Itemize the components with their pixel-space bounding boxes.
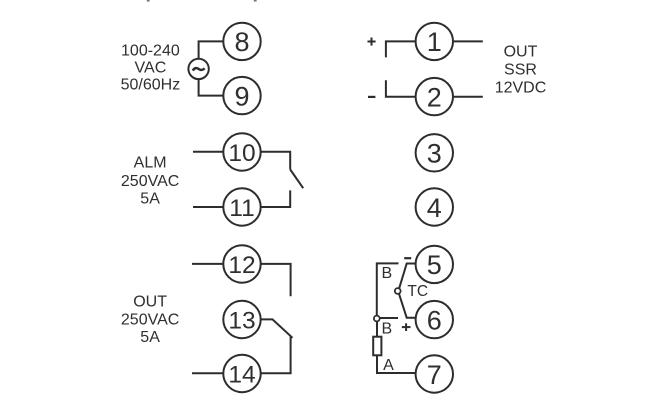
- wire AC source to terminal 8: [199, 41, 224, 58]
- terminal 12: [223, 245, 260, 282]
- svg-text:A: A: [383, 357, 394, 374]
- wire terminal 12 to changeover contact (open side): [261, 264, 291, 296]
- label: supply rating 100-240 VAC 50/60Hz: [121, 43, 181, 94]
- svg-text:VAC: VAC: [135, 60, 167, 77]
- svg-text:250VAC: 250VAC: [121, 312, 179, 329]
- svg-text:12: 12: [228, 252, 255, 279]
- switch blade changeover contact from terminal 13: [261, 319, 293, 337]
- stray mark (cropped text) top left: [147, 0, 150, 2]
- svg-text:8: 8: [234, 27, 249, 57]
- svg-text:9: 9: [234, 81, 249, 111]
- polarity plus terminal 6: [402, 323, 411, 331]
- terminal 10: [223, 133, 260, 170]
- node B junction: [374, 316, 380, 322]
- terminal 8: [223, 23, 260, 60]
- AC source G1: [188, 59, 208, 79]
- label: ALM 250VAC 5A: [121, 155, 179, 208]
- svg-text:10: 10: [228, 140, 255, 167]
- wire terminal 10 to ALM contact: [261, 152, 291, 170]
- resistor RTD sensor: [373, 337, 381, 356]
- terminal 11: [223, 188, 260, 225]
- wire right stub terminal 2: [453, 96, 483, 98]
- svg-text:3: 3: [427, 139, 442, 169]
- wire TC junction to terminal 6: [399, 293, 416, 317]
- wire minus stub to terminal 2: [386, 80, 416, 96]
- TC junction node: [395, 288, 401, 294]
- polarity minus terminal 2: [368, 96, 375, 98]
- svg-text:13: 13: [228, 308, 255, 335]
- wire left stub terminal 10: [193, 151, 223, 153]
- switch blade ALM contact (NO): [290, 170, 303, 189]
- wire node to resistor: [376, 321, 378, 337]
- wire common changeover contact to terminal 14: [261, 336, 291, 373]
- terminal 13: [223, 301, 260, 338]
- svg-text:6: 6: [427, 305, 442, 335]
- svg-text:TC: TC: [407, 283, 428, 300]
- wire sensor B top horizontal: [377, 263, 399, 316]
- svg-text:50/60Hz: 50/60Hz: [121, 77, 181, 94]
- wire right stub terminal 1: [453, 40, 483, 42]
- polarity plus terminal 1: [368, 38, 376, 46]
- svg-text:SSR: SSR: [504, 61, 537, 78]
- svg-text:5A: 5A: [140, 329, 160, 346]
- svg-text:7: 7: [427, 360, 442, 390]
- svg-text:250VAC: 250VAC: [121, 173, 179, 190]
- terminal 1: [416, 23, 453, 60]
- svg-text:11: 11: [229, 195, 254, 222]
- terminal 3: [416, 134, 453, 171]
- label: OUT SSR 12VDC: [495, 44, 547, 97]
- svg-text:OUT: OUT: [504, 44, 538, 61]
- svg-text:14: 14: [228, 362, 255, 389]
- svg-text:OUT: OUT: [133, 293, 167, 310]
- svg-text:5A: 5A: [140, 190, 160, 207]
- wire node stub B: [380, 317, 398, 319]
- svg-text:2: 2: [427, 82, 442, 112]
- wire ALM contact to terminal 11: [261, 190, 291, 207]
- terminal 14: [223, 355, 260, 392]
- terminal 9: [223, 77, 260, 114]
- terminal 2: [416, 78, 453, 115]
- terminal 6: [416, 301, 453, 338]
- svg-text:B: B: [382, 320, 393, 337]
- svg-text:B: B: [382, 265, 393, 282]
- wire left stub terminal 11: [193, 206, 223, 208]
- svg-text:ALM: ALM: [134, 155, 167, 172]
- svg-text:4: 4: [427, 193, 442, 223]
- wire AC source to terminal 9: [199, 79, 224, 96]
- wire left stub terminal 12: [192, 263, 223, 265]
- wire plus stub to terminal 1: [386, 41, 416, 57]
- svg-text:12VDC: 12VDC: [495, 79, 547, 96]
- svg-text:100-240: 100-240: [121, 43, 180, 60]
- terminal 7: [416, 355, 453, 392]
- terminal 4: [416, 188, 453, 225]
- wire TC junction to terminal 5: [399, 264, 416, 289]
- polarity minus terminal 5: [404, 257, 411, 259]
- stray mark (cropped text) top middle: [254, 0, 257, 2]
- wire resistor to A line: [377, 355, 416, 373]
- wire left stub terminal 14: [192, 372, 223, 374]
- svg-text:1: 1: [427, 27, 442, 57]
- svg-text:5: 5: [427, 250, 442, 280]
- terminal 5: [416, 246, 453, 283]
- label: OUT 250VAC 5A: [121, 293, 179, 346]
